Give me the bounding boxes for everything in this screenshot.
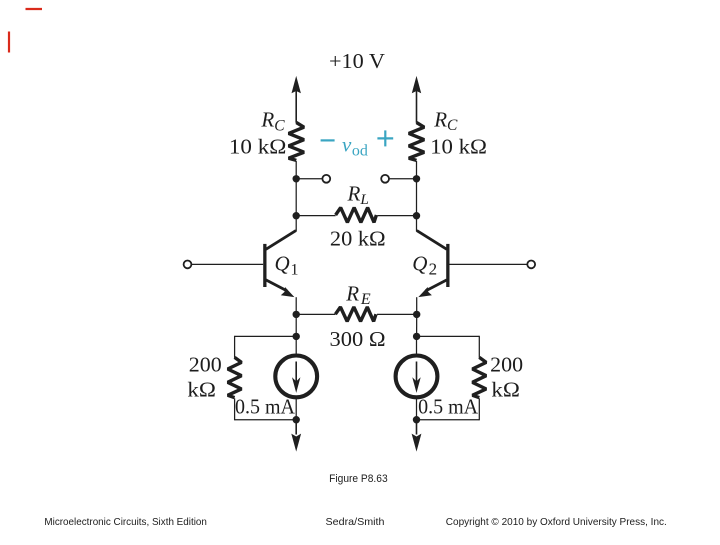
supply arrowhead left (+10V)	[292, 76, 301, 93]
wire node A to terminal vo1	[296, 178, 322, 180]
wire node E to node G	[295, 314, 297, 336]
terminal vo2 (open circle)	[381, 175, 389, 183]
node A (vo1 / collector Q1) junction dot	[293, 175, 300, 182]
wire to negative supply right	[416, 420, 418, 435]
wire Q2 base lead	[450, 263, 527, 265]
wire Q1 base lead	[192, 263, 263, 265]
negative supply arrowhead right	[412, 434, 422, 452]
supply arrowhead right (+10V)	[412, 76, 421, 93]
wire node A down to node C	[295, 179, 297, 216]
wire Q1 emitter to node E	[295, 297, 297, 314]
red slide crop mark horizontal (top left)	[26, 8, 43, 10]
transistor Q1 collector line	[266, 231, 296, 250]
node H (right branch top) junction dot	[413, 333, 420, 340]
wire node C to RL left end	[296, 215, 335, 217]
wire node C to Q1 collector bend	[295, 216, 297, 232]
wire supply arrow stem right	[416, 91, 418, 123]
wire left 200k branch bottom to node I	[235, 419, 297, 421]
svg-text:kΩ: kΩ	[187, 377, 216, 401]
svg-text:Microelectronic Circuits, Sixt: Microelectronic Circuits, Sixth Edition	[44, 516, 207, 528]
label minus sign of vod (teal)	[321, 139, 335, 141]
transistor Q1 emitter line with arrowhead	[266, 280, 287, 291]
svg-text:0.5 mA: 0.5 mA	[418, 394, 479, 418]
node F (RE right / emitter Q2) junction dot	[413, 311, 420, 318]
wire supply arrow stem left	[295, 91, 297, 123]
node C (RL left) junction dot	[293, 212, 300, 219]
node B (vo2 / collector Q2) junction dot	[413, 175, 420, 182]
svg-text:Sedra/Smith: Sedra/Smith	[326, 516, 385, 528]
svg-text:10 kΩ: 10 kΩ	[229, 134, 287, 158]
svg-text:300 Ω: 300 Ω	[330, 327, 386, 351]
resistor RE (300 Ohm) zigzag	[335, 307, 376, 321]
svg-text:0.5 mA: 0.5 mA	[235, 394, 296, 418]
wire RE right end to node F	[377, 313, 417, 315]
wire current source I2 right 0.5 mA bottom	[416, 397, 418, 420]
wire node F to node H	[416, 314, 418, 336]
transistor Q2 collector line	[417, 231, 447, 250]
terminal input right (open circle)	[527, 261, 535, 269]
wire current source I1 left 0.5 mA bottom	[295, 397, 297, 420]
node E (RE left / emitter Q1) junction dot	[293, 311, 300, 318]
wire left 200k branch vertical top	[234, 336, 236, 358]
svg-text:Figure P8.63: Figure P8.63	[329, 473, 388, 485]
negative supply arrowhead left	[291, 434, 301, 452]
svg-text:+10 V: +10 V	[329, 49, 385, 73]
svg-text:200: 200	[490, 352, 523, 376]
current source I2 right 0.5 mA circle	[396, 356, 438, 398]
wire node D to Q2 collector bend	[416, 216, 418, 232]
transistor Q2 base bar	[446, 244, 449, 287]
resistor RL (20 kOhm) zigzag	[336, 208, 377, 223]
wire Q2 emitter to node F	[416, 297, 418, 314]
wire node to current source I1 left 0.5 mA top	[295, 336, 297, 356]
wire node H to right 200k branch top	[417, 335, 480, 337]
current source I1 left 0.5 mA circle	[275, 356, 317, 398]
wire node G to left 200k branch top	[235, 335, 297, 337]
wire terminal vo2 to node B	[389, 178, 416, 180]
svg-text:20 kΩ: 20 kΩ	[330, 227, 386, 251]
transistor Q2 emitter line with arrowhead	[426, 280, 447, 291]
wire RC2 bottom to node B	[416, 161, 418, 179]
node J (right branch bottom) junction dot	[413, 416, 420, 423]
current source I1 left 0.5 mA internal arrow	[295, 362, 297, 388]
current source I2 right 0.5 mA internal arrow	[416, 362, 418, 388]
node G (left branch top) junction dot	[293, 333, 300, 340]
resistor RC2 (right, 10 kOhm) zigzag	[409, 123, 424, 161]
wire RC1 bottom to node A	[295, 161, 297, 179]
wire to negative supply left	[295, 420, 297, 435]
terminal vo1 (open circle)	[322, 175, 330, 183]
node D (RL right) junction dot	[413, 212, 420, 219]
wire right 200k branch vertical bottom	[478, 398, 480, 420]
wire right 200k branch bottom to node J	[417, 419, 480, 421]
red slide crop mark vertical (top left)	[8, 32, 10, 53]
wire node B down to node D	[416, 179, 418, 216]
resistor RC1 (left, 10 kOhm) zigzag	[289, 123, 304, 161]
wire node to current source I2 right 0.5 mA top	[416, 336, 418, 356]
resistor R3 (left 200 kOhm) zigzag	[228, 357, 242, 397]
terminal input left (open circle)	[184, 261, 192, 269]
svg-text:200: 200	[189, 352, 222, 376]
wire node E to RE left end	[296, 313, 335, 315]
svg-text:kΩ: kΩ	[491, 377, 520, 401]
label plus sign of vod (teal)	[377, 130, 393, 146]
wire left 200k branch vertical bottom	[234, 398, 236, 420]
transistor Q1 base bar	[263, 244, 266, 287]
svg-text:10 kΩ: 10 kΩ	[430, 134, 487, 158]
node I (left branch bottom) junction dot	[293, 416, 300, 423]
wire right 200k branch vertical top	[478, 336, 480, 358]
svg-text:Copyright © 2010 by Oxford Uni: Copyright © 2010 by Oxford University Pr…	[446, 516, 667, 528]
wire RL right end to node D	[377, 215, 416, 217]
resistor R4 (right 200 kOhm) zigzag	[472, 357, 486, 397]
